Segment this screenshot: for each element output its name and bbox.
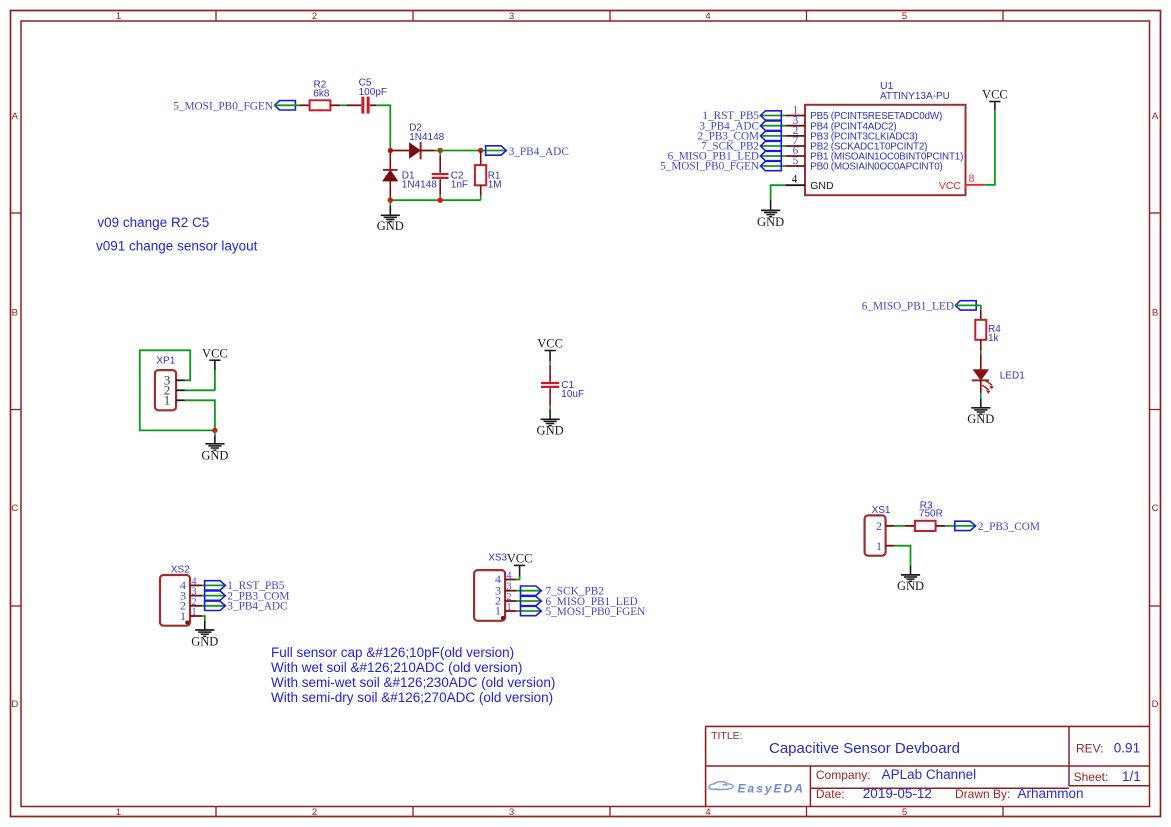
svg-text:1/1: 1/1	[1122, 769, 1141, 784]
U1 pin 7 PB2 wire + net 7_SCK_PB2 flag	[761, 145, 786, 147]
capacitor C1 10uF	[549, 365, 551, 382]
wire	[370, 104, 376, 106]
svg-text:Date:: Date:	[816, 787, 845, 801]
node junction	[438, 148, 443, 153]
svg-text:1: 1	[495, 604, 501, 618]
svg-text:APLab Channel: APLab Channel	[882, 767, 977, 782]
svg-text:GND: GND	[810, 180, 834, 192]
connector XS2 body	[160, 575, 190, 626]
svg-text:With semi-wet soil &#126;230AD: With semi-wet soil &#126;230ADC (old ver…	[271, 675, 555, 690]
svg-text:PB0 (MOSIAIN0OC0APCINT0): PB0 (MOSIAIN0OC0APCINT0)	[810, 162, 942, 173]
U1 pin 3 PB4 wire + net 3_PB4_ADC flag	[761, 125, 786, 127]
svg-text:1k: 1k	[988, 333, 1000, 344]
wire	[516, 577, 519, 580]
capacitor C2	[439, 151, 441, 156]
svg-text:1M: 1M	[488, 180, 502, 191]
svg-text:VCC: VCC	[537, 337, 563, 351]
svg-text:Capacitive Sensor Devboard: Capacitive Sensor Devboard	[769, 740, 960, 757]
svg-text:D: D	[11, 699, 18, 710]
wire	[980, 350, 982, 354]
U1 pin 1 PB5 wire + net 1_RST_PB5 flag	[761, 115, 786, 117]
op-amp U1 ATTINY13A-PU body	[805, 105, 966, 195]
diode D1 1N4148	[389, 151, 391, 170]
wire	[945, 525, 976, 527]
svg-text:5: 5	[793, 155, 799, 167]
svg-text:C: C	[1152, 503, 1159, 514]
node junction	[388, 148, 393, 153]
svg-text:3: 3	[509, 807, 514, 818]
svg-text:VCC: VCC	[982, 88, 1008, 102]
svg-text:5: 5	[902, 807, 907, 818]
EasyEDA logo	[709, 782, 733, 790]
svg-text:1: 1	[116, 807, 121, 818]
svg-text:GND: GND	[201, 449, 228, 463]
svg-text:5_MOSI_PB0_FGEN: 5_MOSI_PB0_FGEN	[660, 161, 759, 173]
svg-text:XS2: XS2	[171, 565, 190, 576]
resistor R1	[480, 151, 482, 166]
svg-text:REV:: REV:	[1076, 741, 1104, 755]
wire	[894, 546, 910, 566]
connector XS1 body	[865, 515, 886, 555]
title block frame	[706, 725, 1150, 727]
svg-text:0.91: 0.91	[1114, 740, 1140, 755]
svg-text:2: 2	[312, 807, 317, 818]
connector XP1 body	[155, 370, 176, 410]
svg-text:A: A	[1152, 111, 1159, 122]
svg-text:XS3: XS3	[488, 553, 507, 564]
svg-text:B: B	[12, 308, 18, 319]
svg-text:Full sensor cap &#126;10pF(old: Full sensor cap &#126;10pF(old version)	[271, 645, 514, 660]
svg-text:GND: GND	[897, 579, 924, 593]
svg-text:GND: GND	[537, 423, 564, 437]
U1 pin 6 PB1 wire + net 6_MISO_PB1_LED flag	[761, 155, 786, 157]
wire	[955, 304, 980, 306]
resistor R4 1k	[980, 310, 982, 320]
svg-text:XS1: XS1	[872, 505, 891, 516]
svg-text:Company:: Company:	[816, 768, 871, 782]
svg-text:XP1: XP1	[156, 356, 175, 367]
svg-text:With wet soil &#126;210ADC (ol: With wet soil &#126;210ADC (old version)	[271, 660, 522, 675]
diode D2 1N4148	[390, 150, 409, 152]
svg-text:LED1: LED1	[1000, 371, 1025, 382]
svg-text:5_MOSI_PB0_FGEN: 5_MOSI_PB0_FGEN	[173, 101, 273, 113]
svg-text:1N4148: 1N4148	[402, 180, 437, 191]
svg-text:100pF: 100pF	[359, 87, 387, 98]
svg-text:VCC: VCC	[202, 346, 228, 360]
svg-text:D: D	[1152, 699, 1159, 710]
resistor R3 750R	[905, 525, 915, 527]
wire	[984, 110, 995, 185]
XS3 pin 1 marker	[501, 616, 505, 620]
svg-text:2_PB3_COM: 2_PB3_COM	[978, 521, 1040, 533]
svg-text:3_PB4_ADC: 3_PB4_ADC	[227, 601, 287, 613]
power VCC	[994, 102, 996, 111]
LED LED1	[980, 354, 982, 370]
wire	[980, 393, 982, 399]
svg-text:6k8: 6k8	[313, 89, 330, 100]
wire	[894, 525, 905, 527]
svg-text:A: A	[12, 111, 19, 122]
svg-text:v09 change R2 C5: v09 change R2 C5	[97, 215, 209, 230]
svg-text:VCC: VCC	[939, 180, 962, 192]
ground	[214, 430, 216, 435]
wire	[549, 361, 551, 365]
svg-text:1: 1	[180, 609, 186, 623]
svg-text:TITLE:: TITLE:	[711, 730, 743, 742]
ground	[204, 620, 206, 630]
svg-text:2019-05-12: 2019-05-12	[863, 786, 932, 801]
wire	[275, 104, 300, 106]
svg-text:10uF: 10uF	[561, 389, 584, 400]
svg-text:8: 8	[969, 173, 975, 185]
svg-text:3: 3	[509, 11, 514, 22]
wire	[185, 389, 215, 391]
svg-text:Sheet:: Sheet:	[1074, 770, 1109, 784]
svg-text:GND: GND	[967, 412, 994, 426]
wire	[481, 150, 506, 152]
node junction	[478, 148, 483, 153]
node junction	[388, 198, 393, 203]
ground	[549, 409, 551, 419]
node junction	[438, 198, 443, 203]
resistor R2	[310, 100, 331, 110]
svg-text:5_MOSI_PB0_FGEN: 5_MOSI_PB0_FGEN	[546, 606, 646, 618]
wire	[185, 400, 215, 430]
ground	[770, 200, 772, 210]
svg-text:Arhammon: Arhammon	[1018, 786, 1084, 801]
svg-text:4: 4	[705, 807, 710, 818]
wire	[390, 199, 480, 201]
ground	[910, 565, 912, 575]
svg-text:2: 2	[876, 519, 882, 533]
svg-text:1: 1	[876, 539, 882, 553]
svg-text:3_PB4_ADC: 3_PB4_ADC	[509, 146, 569, 158]
svg-text:v091 change sensor layout: v091 change sensor layout	[96, 239, 258, 254]
wire	[440, 150, 481, 152]
svg-text:1: 1	[116, 11, 121, 22]
wire	[421, 150, 435, 152]
svg-text:5: 5	[902, 11, 907, 22]
node junction	[212, 428, 217, 433]
ground	[389, 200, 391, 205]
ground	[980, 399, 982, 408]
svg-text:2: 2	[312, 11, 317, 22]
svg-text:4: 4	[705, 11, 710, 22]
wire	[214, 370, 216, 390]
svg-text:C: C	[11, 503, 18, 514]
power VCC	[519, 565, 521, 576]
U1 pin 5 PB0 wire + net 5_MOSI_PB0_FGEN flag	[761, 165, 786, 167]
svg-text:1nF: 1nF	[451, 180, 468, 191]
svg-text:1N4148: 1N4148	[409, 132, 444, 143]
wire	[549, 406, 551, 410]
svg-text:ATTINY13A-PU: ATTINY13A-PU	[880, 91, 950, 102]
net 3_PB4_ADC flag	[486, 146, 507, 155]
capacitor C5	[361, 97, 364, 114]
svg-text:With semi-dry soil &#126;270AD: With semi-dry soil &#126;270ADC (old ver…	[271, 690, 553, 705]
svg-text:Drawn By:: Drawn By:	[955, 787, 1010, 801]
wire	[140, 350, 215, 430]
svg-text:B: B	[1152, 308, 1158, 319]
connector XS3 body	[474, 570, 505, 621]
svg-text:GND: GND	[377, 219, 404, 233]
svg-text:EasyEDA: EasyEDA	[738, 782, 805, 796]
wire	[202, 616, 205, 620]
svg-text:1: 1	[164, 392, 171, 407]
U1 pin 2 PB3 wire + net 2_PB3_COM flag	[761, 135, 786, 137]
svg-text:GND: GND	[757, 215, 784, 229]
XS2 pin 1 marker	[185, 621, 189, 625]
svg-text:GND: GND	[191, 635, 218, 649]
net 2_PB3_COM flag	[955, 521, 976, 530]
svg-text:4: 4	[792, 174, 798, 186]
svg-text:750R: 750R	[919, 508, 943, 519]
wire	[330, 104, 340, 106]
svg-text:6_MISO_PB1_LED: 6_MISO_PB1_LED	[862, 301, 954, 313]
svg-text:VCC: VCC	[507, 552, 533, 566]
